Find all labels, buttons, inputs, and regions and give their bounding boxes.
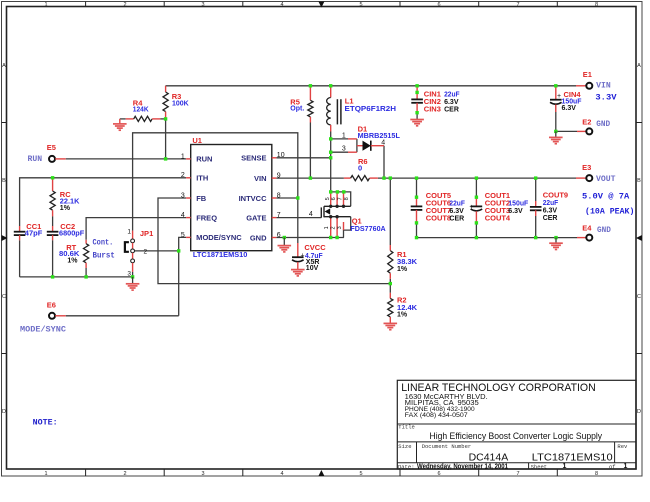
svg-text:E6: E6 <box>47 301 56 310</box>
wire CIN4 bottom to E2/ground <box>555 105 557 132</box>
node CC2 bottom junction <box>51 275 54 278</box>
port E3 VOUT <box>576 175 592 181</box>
wire INTVCC to JP1 pin 1 <box>276 197 298 199</box>
capacitor CIN1/CIN2/CIN3 <box>411 86 423 119</box>
svg-text:A: A <box>2 63 6 69</box>
svg-text:B: B <box>2 178 6 184</box>
svg-text:GATE: GATE <box>246 213 266 222</box>
svg-text:8: 8 <box>344 197 350 200</box>
svg-text:Title: Title <box>398 424 415 431</box>
svg-text:Size: Size <box>398 443 411 450</box>
node JP1-2 MODE junction <box>177 249 180 252</box>
node GND pin junction <box>283 236 286 239</box>
wire GATE pin to Q1 gate <box>276 217 321 219</box>
transistor Q1 FDS7760A <box>321 192 350 238</box>
svg-text:GND: GND <box>596 120 610 129</box>
Q1 internal connection dots <box>329 205 332 208</box>
node D1 cathode junction <box>382 176 385 179</box>
svg-text:LTC1871EMS10: LTC1871EMS10 <box>193 250 248 259</box>
svg-text:8: 8 <box>277 192 281 199</box>
svg-text:5: 5 <box>181 232 185 239</box>
wire compensation ground rail <box>20 276 133 278</box>
svg-text:COUT8: COUT8 <box>426 214 451 223</box>
svg-text:Date:: Date: <box>398 463 415 470</box>
svg-text:ETQP6F1R2H: ETQP6F1R2H <box>345 104 397 113</box>
capacitor COUT1-COUT4 <box>471 178 483 238</box>
wire VIN top rail <box>166 85 577 87</box>
svg-text:CER: CER <box>449 216 464 223</box>
wire INTVCC to CVCC <box>297 198 299 243</box>
resistor R3 <box>163 86 168 119</box>
title block <box>397 380 636 469</box>
svg-text:6.3V: 6.3V <box>449 208 464 215</box>
svg-text:Opt.: Opt. <box>290 104 304 113</box>
svg-text:1: 1 <box>44 2 47 8</box>
node L1 top junction <box>329 84 332 87</box>
svg-text:6.3V: 6.3V <box>444 99 459 106</box>
svg-text:3: 3 <box>337 226 343 229</box>
ground at JP1 <box>126 277 140 290</box>
svg-text:100K: 100K <box>172 98 189 107</box>
svg-text:VIN: VIN <box>254 174 267 183</box>
svg-text:3: 3 <box>201 2 204 8</box>
node INTVCC junction <box>296 196 299 199</box>
node Q1 drain junctions <box>329 190 332 193</box>
svg-text:GND: GND <box>597 226 611 235</box>
svg-text:4: 4 <box>181 212 185 219</box>
svg-text:Burst: Burst <box>93 251 115 260</box>
svg-text:C: C <box>637 294 641 300</box>
wire VOUT rail R6 to E3 <box>378 177 576 179</box>
svg-text:E4: E4 <box>582 224 592 233</box>
svg-text:LTC1871EMS10: LTC1871EMS10 <box>532 452 613 464</box>
wire JP1 pin 2 to MODE/SYNC net <box>134 250 178 252</box>
capacitor COUT9 <box>530 178 542 238</box>
wire R1 top to VOUT rail <box>389 178 391 245</box>
svg-text:VIN: VIN <box>596 81 611 90</box>
svg-text:MBRB2515L: MBRB2515L <box>358 131 401 140</box>
U1 pin 3 FB <box>186 197 191 199</box>
ground at output rail <box>549 238 563 250</box>
svg-text:3: 3 <box>201 471 204 477</box>
wire R1 bottom to FB node <box>389 279 391 293</box>
port E6 MODE/SYNC <box>49 313 66 319</box>
svg-text:9: 9 <box>277 173 281 180</box>
wire D1 pin 1 branch <box>331 138 348 140</box>
svg-text:5: 5 <box>325 197 331 200</box>
svg-text:7: 7 <box>516 2 519 8</box>
svg-text:D: D <box>637 409 641 415</box>
jumper JP1 <box>131 231 135 277</box>
svg-text:1: 1 <box>324 226 330 229</box>
resistor R2 <box>388 293 393 323</box>
svg-text:Wednesday, November 14, 2001: Wednesday, November 14, 2001 <box>417 464 508 471</box>
node FB junction <box>389 282 392 285</box>
svg-text:3: 3 <box>127 270 131 277</box>
svg-text:10V: 10V <box>306 265 319 272</box>
svg-text:6.3V: 6.3V <box>543 208 558 215</box>
svg-text:1: 1 <box>563 463 567 470</box>
node R3/R4 junction <box>164 117 167 120</box>
svg-text:10: 10 <box>277 152 285 159</box>
capacitor COUT5-COUT8 <box>411 178 423 238</box>
svg-text:(10A PEAK): (10A PEAK) <box>585 206 634 216</box>
svg-text:2: 2 <box>123 471 126 477</box>
wire E6 to MODE/SYNC net <box>66 315 179 317</box>
svg-text:E1: E1 <box>583 70 592 79</box>
svg-text:22uF: 22uF <box>543 198 559 207</box>
wire D1 pin 3 branch <box>331 151 348 153</box>
svg-text:7: 7 <box>277 212 281 219</box>
wire D1 anode bracket <box>356 139 358 152</box>
svg-text:8: 8 <box>595 2 598 8</box>
capacitor CC1 <box>14 226 26 240</box>
svg-text:2: 2 <box>144 248 148 255</box>
svg-text:38.3K: 38.3K <box>397 257 418 266</box>
svg-text:MODE/SYNC: MODE/SYNC <box>196 233 242 242</box>
port E5 RUN <box>49 156 66 162</box>
svg-text:6: 6 <box>437 471 440 477</box>
svg-text:RUN: RUN <box>196 155 212 164</box>
svg-text:LINEAR TECHNOLOGY CORPORATION: LINEAR TECHNOLOGY CORPORATION <box>401 382 596 394</box>
op-amp U1 LTC1871EMS10 controller box <box>191 145 272 251</box>
ground at CVCC <box>291 270 305 276</box>
U1 pin 7 GATE <box>272 217 277 219</box>
wire R3-R4 node to RUN pin <box>165 119 167 159</box>
node R5 bottom junction <box>309 176 312 179</box>
svg-text:6: 6 <box>331 197 337 200</box>
svg-text:B: B <box>637 178 641 184</box>
svg-text:SENSE: SENSE <box>241 154 266 163</box>
U1 pin 4 FREQ <box>186 217 191 219</box>
wire SENSE pin to switch node <box>276 157 330 159</box>
svg-text:1%: 1% <box>67 257 78 264</box>
svg-text:1: 1 <box>127 228 131 235</box>
U1 pin 9 VIN <box>272 177 277 179</box>
port E2 GND <box>577 128 592 134</box>
svg-text:Cont.: Cont. <box>93 238 114 247</box>
svg-text:1: 1 <box>342 132 346 139</box>
capacitor CC2 <box>47 226 59 277</box>
svg-text:4: 4 <box>309 211 313 218</box>
node R5 top junction <box>309 84 312 87</box>
svg-text:1: 1 <box>181 153 185 160</box>
svg-text:6.3V: 6.3V <box>562 105 577 112</box>
resistor RT <box>84 240 89 277</box>
svg-text:C: C <box>2 294 6 300</box>
title block address lines <box>405 394 488 419</box>
svg-text:6800pF: 6800pF <box>59 228 85 237</box>
svg-text:RUN: RUN <box>28 155 43 164</box>
svg-text:Document Number: Document Number <box>422 443 472 450</box>
resistor R4 <box>120 116 166 121</box>
svg-text:COUT4: COUT4 <box>485 214 511 223</box>
svg-text:3: 3 <box>342 146 346 153</box>
JP1 shunt bracket <box>125 242 129 252</box>
resistor R6 0 ohm <box>344 176 378 181</box>
node output ground tap <box>554 236 557 239</box>
svg-text:22uF: 22uF <box>449 199 465 208</box>
svg-text:E3: E3 <box>582 163 591 172</box>
U1 pin 8 INTVCC <box>272 197 277 199</box>
U1 pin 6 GND <box>272 237 277 239</box>
svg-text:2: 2 <box>181 172 185 179</box>
svg-text:6.3V: 6.3V <box>508 208 523 215</box>
svg-text:0: 0 <box>358 163 362 172</box>
svg-text:of: of <box>609 463 616 470</box>
svg-text:CIN3: CIN3 <box>424 104 441 113</box>
svg-text:NOTE:: NOTE: <box>33 419 58 428</box>
svg-text:+: + <box>557 93 561 100</box>
svg-text:4: 4 <box>280 471 283 477</box>
svg-text:+: + <box>469 204 473 211</box>
resistor R1 <box>388 245 393 279</box>
ground at R4 <box>113 119 127 130</box>
title block Title cell <box>398 424 602 441</box>
ground at U1 GND pin <box>278 238 292 252</box>
port E4 GND <box>577 235 592 241</box>
svg-text:CER: CER <box>444 106 459 113</box>
wire FB pin to divider <box>158 198 390 284</box>
node switch node junctions <box>329 137 332 140</box>
svg-text:FAX (408) 434-0507: FAX (408) 434-0507 <box>405 412 468 419</box>
svg-text:VOUT: VOUT <box>596 175 616 184</box>
U1 pin 1 RUN <box>186 158 191 160</box>
svg-text:6: 6 <box>437 2 440 8</box>
svg-text:4: 4 <box>280 2 283 8</box>
svg-text:CER: CER <box>543 215 558 222</box>
inductor L1 <box>327 86 341 132</box>
wire VIN pin to R6 (VOUT feed) <box>276 177 344 179</box>
svg-text:5: 5 <box>359 2 362 8</box>
port E1 VIN <box>576 83 592 89</box>
diode D1 MBRB2515L <box>348 139 384 152</box>
svg-text:ITH: ITH <box>196 174 208 183</box>
wire Q1 source jog <box>344 217 351 238</box>
ground at CIN1 <box>410 120 424 126</box>
svg-text:MODE/SYNC: MODE/SYNC <box>20 326 66 335</box>
svg-text:DC414A: DC414A <box>469 452 509 464</box>
node CIN4 bottom junction <box>554 130 557 133</box>
svg-text:47pF: 47pF <box>25 228 43 237</box>
node RUN junction <box>164 157 167 160</box>
ground at R2 <box>384 323 398 329</box>
wire FREQ pin to RT <box>86 218 186 240</box>
svg-text:150uF: 150uF <box>508 199 528 208</box>
wire ITH pin to compensation network <box>20 178 187 226</box>
node R1 top junction <box>389 176 392 179</box>
svg-text:+: + <box>301 253 305 260</box>
node CIN4 top junction <box>554 84 557 87</box>
node CIN1 junctions <box>415 84 418 87</box>
svg-text:FDS7760A: FDS7760A <box>350 224 386 233</box>
node JP1 ground junction <box>131 275 134 278</box>
svg-text:1%: 1% <box>397 266 408 273</box>
svg-text:Rev: Rev <box>617 443 628 450</box>
title block Date / Sheet row <box>398 463 628 470</box>
node RT bottom junction <box>84 275 87 278</box>
capacitor CIN4 <box>550 86 562 112</box>
svg-text:8: 8 <box>595 471 598 477</box>
svg-text:3.3V: 3.3V <box>595 93 617 103</box>
svg-text:E2: E2 <box>582 117 591 126</box>
resistor RC <box>50 178 55 226</box>
node ITH/RC junction <box>51 176 54 179</box>
svg-text:1: 1 <box>624 463 628 470</box>
svg-text:INTVCC: INTVCC <box>239 194 268 203</box>
svg-text:Sheet: Sheet <box>531 463 548 470</box>
svg-text:6: 6 <box>277 232 281 239</box>
wire D1 cathode to VOUT rail <box>383 146 385 178</box>
resistor R5 Opt. <box>308 86 313 178</box>
U1 pin 2 ITH <box>186 177 191 179</box>
svg-text:1%: 1% <box>60 205 71 212</box>
wire RUN E5 to pin 1 <box>66 158 186 160</box>
svg-text:3: 3 <box>181 192 185 199</box>
capacitor CVCC <box>292 243 304 269</box>
svg-text:2: 2 <box>123 2 126 8</box>
svg-text:U1: U1 <box>192 136 202 145</box>
svg-text:FB: FB <box>196 194 207 203</box>
svg-text:D: D <box>2 409 6 415</box>
svg-text:22uF: 22uF <box>444 90 460 99</box>
wire MODE/SYNC pin down to JP1 and E6 <box>179 237 186 315</box>
svg-text:5.0V @ 7A: 5.0V @ 7A <box>582 192 630 202</box>
svg-text:4: 4 <box>381 139 385 146</box>
wire GND pin to power ground rail <box>276 237 344 239</box>
svg-text:High Efficiency Boost Converte: High Efficiency Boost Converter Logic Su… <box>430 431 603 441</box>
wire CC1 bottom to ground rail <box>19 240 21 277</box>
U1 pin 10 SENSE <box>272 157 277 159</box>
wire switch node vertical <box>330 132 332 192</box>
node Q1 source junctions <box>329 236 332 239</box>
svg-text:E5: E5 <box>47 143 56 152</box>
svg-text:5: 5 <box>359 471 362 477</box>
svg-text:GND: GND <box>250 233 267 242</box>
svg-text:A: A <box>637 63 641 69</box>
title block Size / Document Number / Rev cells <box>398 443 628 464</box>
svg-text:1: 1 <box>44 471 47 477</box>
svg-text:7: 7 <box>338 197 344 200</box>
svg-text:FREQ: FREQ <box>196 213 217 222</box>
svg-text:JP1: JP1 <box>140 229 153 238</box>
wire Q1 drain rail <box>331 192 351 206</box>
svg-text:7: 7 <box>516 471 519 477</box>
wire output ground rail <box>417 237 578 239</box>
svg-text:2: 2 <box>330 226 336 229</box>
svg-text:124K: 124K <box>133 105 149 114</box>
U1 pin 5 MODE/SYNC <box>186 236 191 238</box>
ground at CIN4 <box>549 131 563 143</box>
svg-text:1%: 1% <box>397 312 408 319</box>
